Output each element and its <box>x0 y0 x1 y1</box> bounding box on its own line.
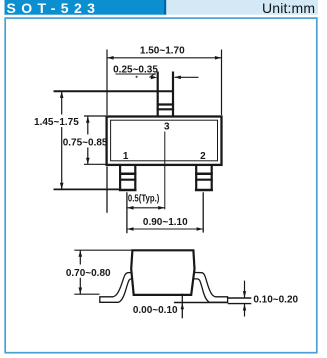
svg-text:0.25~0.35: 0.25~0.35 <box>113 65 158 76</box>
svg-text:0.90~1.10: 0.90~1.10 <box>143 217 188 228</box>
svg-text:0.00~0.10: 0.00~0.10 <box>133 305 178 316</box>
svg-text:1: 1 <box>123 151 129 162</box>
svg-text:0.5(Typ.): 0.5(Typ.) <box>128 193 159 204</box>
svg-text:1.50~1.70: 1.50~1.70 <box>140 45 185 56</box>
svg-text:0.10~0.20: 0.10~0.20 <box>253 294 298 305</box>
svg-text:Unit:mm: Unit:mm <box>262 0 315 16</box>
svg-text:3: 3 <box>164 121 170 132</box>
svg-text:1.45~1.75: 1.45~1.75 <box>34 117 79 128</box>
svg-text:0.70~0.80: 0.70~0.80 <box>66 268 111 279</box>
svg-text:SOT-523: SOT-523 <box>7 0 101 16</box>
svg-text:2: 2 <box>200 151 206 162</box>
svg-text:0.75~0.85: 0.75~0.85 <box>63 137 108 148</box>
